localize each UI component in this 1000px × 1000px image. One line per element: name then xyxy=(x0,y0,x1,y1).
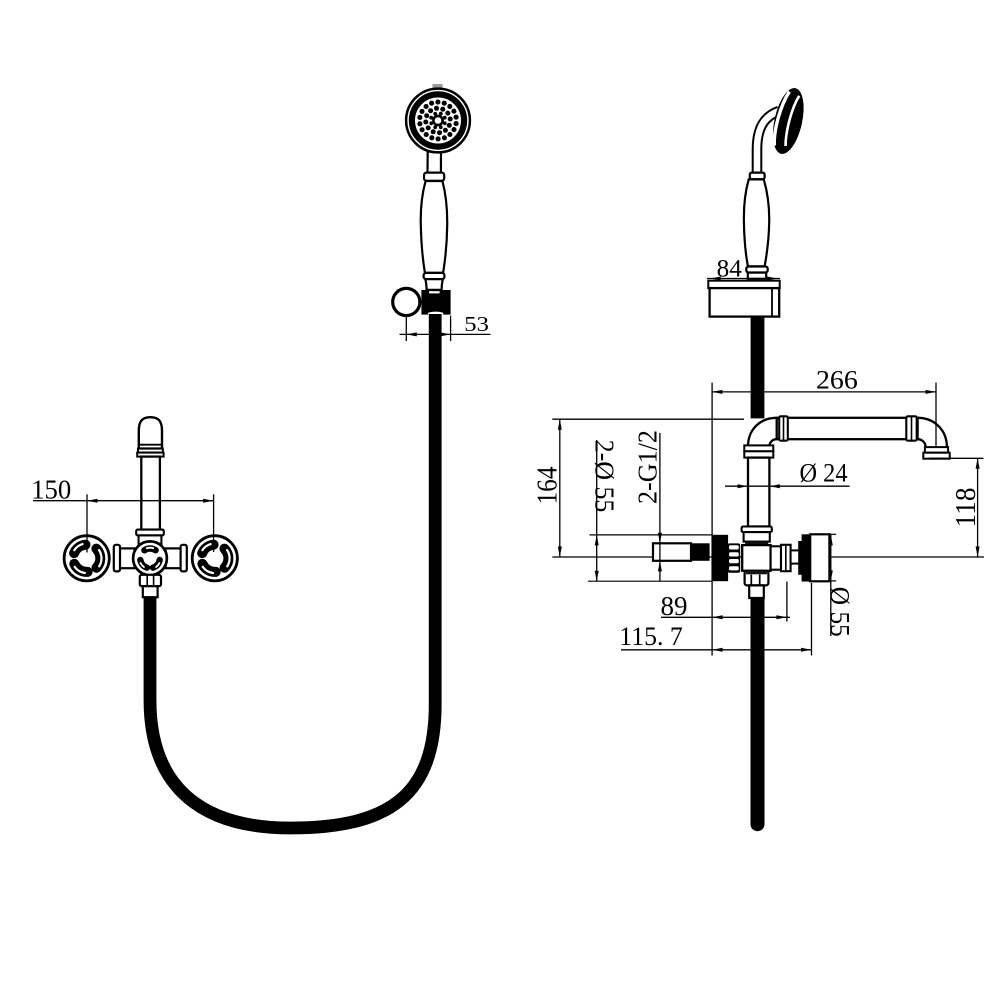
right wall flange (black + plate) xyxy=(798,534,829,581)
dimension 89 xyxy=(661,582,791,622)
dimension 53 xyxy=(400,312,491,341)
left pipe flange xyxy=(114,545,120,572)
svg-text:53: 53 xyxy=(464,312,489,336)
hose adapter under hex nut xyxy=(143,586,158,597)
spout pipe assembly (side view) xyxy=(742,416,950,545)
dimension 115.7 xyxy=(619,583,812,656)
svg-text:89: 89 xyxy=(661,591,688,621)
svg-text:164: 164 xyxy=(532,467,563,505)
dimension diameter 55 (right) xyxy=(825,534,855,637)
hose adapter (side view) xyxy=(749,585,764,598)
faucet riser spout (front view) xyxy=(136,417,164,544)
valve spindle (left, side view) xyxy=(653,543,710,561)
dimension 84 xyxy=(707,253,780,282)
left wall flange (black) xyxy=(712,535,728,581)
svg-text:Ø 24: Ø 24 xyxy=(800,458,848,487)
svg-text:2-Ø 55: 2-Ø 55 xyxy=(590,440,620,513)
body centerline xyxy=(552,556,984,558)
faucet center body (front view) xyxy=(133,541,167,575)
hose from holder to pipe (side view) xyxy=(751,317,765,419)
dimension 118 xyxy=(929,458,984,557)
faucet body (side view) xyxy=(742,545,770,571)
svg-text:115. 7: 115. 7 xyxy=(619,621,683,651)
hex nut under body xyxy=(140,575,161,586)
dimension 164 xyxy=(532,419,744,557)
dimension 2-G1/2 xyxy=(632,430,662,581)
svg-text:150: 150 xyxy=(31,474,71,504)
right pipe arm xyxy=(166,548,182,568)
right cross handle xyxy=(192,536,237,581)
svg-text:118: 118 xyxy=(951,488,982,528)
left pipe arm xyxy=(119,548,135,568)
right pipe flange xyxy=(181,545,187,572)
wall bracket block xyxy=(421,290,450,315)
dimension 2-diameter55 xyxy=(588,440,712,581)
shower hose (front view loop) xyxy=(150,314,435,828)
left cross handle xyxy=(64,536,109,581)
dimension diameter 24 xyxy=(725,458,850,488)
hand shower head (side view, black ellipse) xyxy=(768,85,809,157)
shower holder bracket (side view) xyxy=(708,281,779,317)
lower hose (side view) xyxy=(751,598,765,824)
dimension 266 xyxy=(712,365,936,446)
hand shower head (front view) xyxy=(406,84,470,152)
bracket knob circle xyxy=(393,288,420,315)
hand shower neck and handle (front view) xyxy=(421,152,448,290)
knurled nut xyxy=(728,543,741,572)
wall plane line xyxy=(711,383,713,656)
hand shower handle (side view) xyxy=(744,173,769,279)
svg-text:266: 266 xyxy=(816,365,858,394)
svg-text:Ø 55: Ø 55 xyxy=(825,587,855,637)
svg-text:2-G1/2: 2-G1/2 xyxy=(632,430,662,504)
dimension 150 xyxy=(31,474,213,552)
hex nut under body (side view) xyxy=(745,571,769,586)
right stem rings xyxy=(771,545,800,571)
hand shower neck (side view) xyxy=(757,111,779,178)
